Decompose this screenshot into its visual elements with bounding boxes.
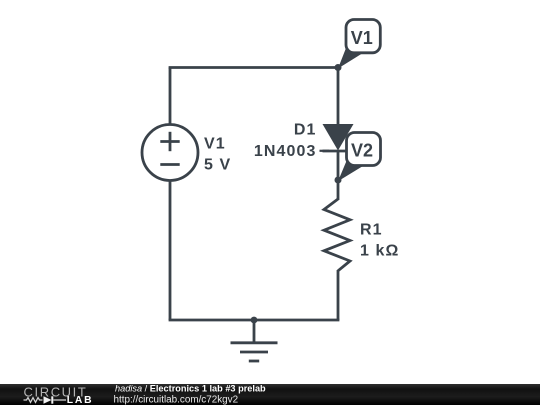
probe V2 flag <box>338 133 381 182</box>
svg-text:5 V: 5 V <box>204 157 231 174</box>
node V1 junction dot <box>335 64 342 71</box>
svg-text:V1: V1 <box>204 136 226 153</box>
svg-text:R1: R1 <box>360 222 383 239</box>
wire: top rail horizontal <box>169 66 338 69</box>
footer bar <box>0 384 540 405</box>
label R1 1 kOhm <box>360 222 399 260</box>
label V1 5 V <box>204 136 231 174</box>
wire: right vertical top (node to diode anode) <box>337 68 340 126</box>
svg-text:hadisa / Electronics 1 lab #3: hadisa / Electronics 1 lab #3 prelab <box>115 383 266 393</box>
CircuitLab logo <box>24 384 94 405</box>
node V2 junction dot <box>335 177 342 184</box>
ground junction node <box>251 317 258 324</box>
wire: top-left vertical (source top to top rail) <box>169 68 172 125</box>
voltage source V1 <box>142 125 198 181</box>
svg-text:V1: V1 <box>351 28 373 48</box>
wire: bottom rail horizontal <box>169 319 340 322</box>
svg-text:LAB: LAB <box>67 395 94 405</box>
svg-text:1N4003: 1N4003 <box>254 143 317 160</box>
svg-text:http://circuitlab.com/c72kgv2: http://circuitlab.com/c72kgv2 <box>114 394 239 405</box>
probe V1 flag <box>338 20 380 69</box>
ground <box>231 320 278 361</box>
resistor R1 <box>324 199 350 271</box>
svg-text:V2: V2 <box>351 141 373 161</box>
diode D1 <box>323 124 354 151</box>
wire: resistor bottom to bottom rail <box>337 270 340 320</box>
svg-text:1 kΩ: 1 kΩ <box>360 243 399 260</box>
label D1 1N4003 <box>254 122 329 161</box>
wire: left vertical (source bottom to bottom rail) <box>169 181 172 321</box>
svg-text:D1: D1 <box>294 122 317 139</box>
wire: diode cathode to resistor <box>337 151 340 200</box>
